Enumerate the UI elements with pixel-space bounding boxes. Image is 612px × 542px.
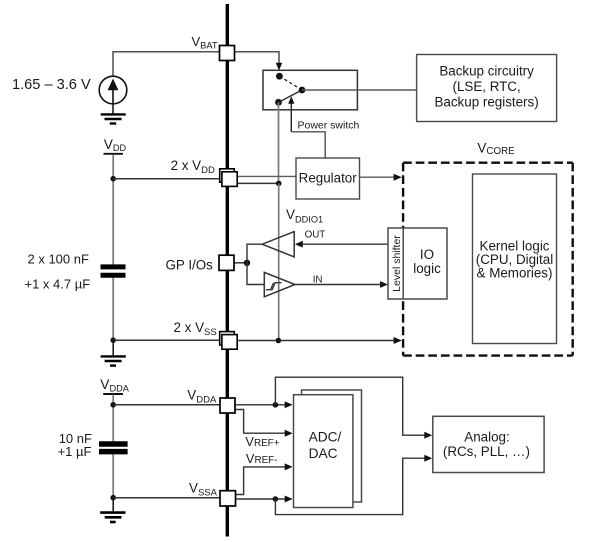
wire dashed switch throw (VBAT side) (279, 76, 302, 90)
svg-text:IO: IO (420, 247, 434, 262)
wire IN from input buffer to level shifter (295, 284, 381, 286)
svg-text:(LSE, RTC,: (LSE, RTC, (452, 79, 520, 94)
wire VSSA pin to ADC (236, 498, 286, 500)
wire VDDA rail down (below capacitor) (112, 454, 114, 498)
svg-text:+1 x 4.7 µF: +1 x 4.7 µF (25, 277, 91, 292)
kernel logic box (473, 174, 557, 344)
node switch top contact (276, 73, 283, 80)
svg-text:1.65 – 3.6 V: 1.65 – 3.6 V (12, 77, 91, 93)
wire VDD junction to 2xVDD pin (113, 178, 220, 180)
wire GPIO pin to buffers junction (234, 262, 247, 264)
wire regulator top to switch arrow (291, 132, 325, 158)
analog peripherals box U-analog (433, 416, 544, 472)
node VSSA junction dot (110, 495, 116, 501)
wire VREF+ from VDDA pin to ADC (235, 410, 285, 434)
wire chip pin rail (MCU boundary) (226, 4, 229, 537)
pin VSSA square (220, 491, 236, 506)
wire switch bottom contact down to VDD rail (278, 102, 280, 183)
node VSS junction dot (110, 337, 116, 343)
op-amp output buffer (GPIO out driver) (262, 232, 294, 257)
capacitor C2 10nF +1uF (99, 444, 128, 452)
battery source V (1.65-3.6V) (99, 76, 127, 104)
wire VDDA junction to VDDA pin (113, 404, 220, 406)
svg-text:GP I/Os: GP I/Os (166, 257, 214, 272)
node VDDA junction dot (110, 402, 116, 408)
ADC/DAC stacked boxes U-adc (294, 390, 362, 508)
regulator box U-reg (296, 158, 360, 199)
wire VDD rail down (below capacitor) (112, 277, 114, 341)
node VCORE dashed domain box (403, 163, 573, 356)
node GPIO junction dot (244, 260, 250, 266)
pin 2xVDD double square (220, 169, 238, 187)
pin VBAT square (220, 46, 235, 61)
svg-text:Level shifter: Level shifter (391, 235, 403, 292)
pin GPIO square (219, 255, 234, 270)
level shifter / IO logic box (388, 228, 447, 299)
node VSS/VDDIO junction dot (276, 338, 282, 344)
pin VDDA square (220, 398, 235, 413)
svg-text:OUT: OUT (305, 229, 326, 240)
svg-text:IN: IN (313, 275, 323, 286)
wire VREF- from VSSA pin to ADC (236, 467, 286, 495)
wire VDDIO1 rail down through IO buffers (278, 183, 280, 340)
svg-text:& Memories): & Memories) (477, 266, 553, 281)
wire VSSA junction down and over to analog box (275, 458, 424, 514)
wire junction to output buffer (247, 244, 262, 263)
wire VBAT pin to power switch (235, 52, 280, 63)
svg-text:(RCs, PLL, …): (RCs, PLL, …) (443, 444, 530, 459)
wire arrow into power switch top contact (276, 63, 282, 71)
node switch bottom contact (275, 99, 282, 106)
svg-text:+1 µF: +1 µF (58, 444, 92, 459)
wire switch select arrow from regulator (290, 104, 292, 132)
svg-text:ADC/: ADC/ (309, 430, 342, 445)
wire switch common to backup box (302, 89, 417, 91)
wire VSSA junction to ground (112, 498, 114, 512)
wire VSS junction to 2xVSS pin (113, 339, 220, 341)
op-amp input buffer (Schmitt trigger) (264, 272, 295, 296)
svg-text:Backup circuitry: Backup circuitry (439, 64, 534, 79)
svg-text:Power switch: Power switch (298, 119, 360, 131)
wire VSS junction to ground (112, 340, 114, 356)
node switch common contact (299, 87, 306, 94)
wire 2xVDD pin to regulator (237, 175, 296, 177)
wire OUT from level shifter to output buffer (300, 243, 388, 245)
svg-text:DAC: DAC (309, 446, 338, 461)
svg-text:Backup registers): Backup registers) (434, 95, 538, 110)
power switch box (263, 70, 357, 110)
wire 2xVSS pin to VCORE domain (237, 340, 394, 342)
node VDD/VDDIO junction dot (276, 181, 282, 187)
backup circuitry box U-backup (417, 55, 557, 122)
wire battery to ground (112, 104, 114, 114)
ground under VSS rail (101, 356, 126, 365)
wire VBAT pin to battery (113, 52, 220, 77)
wire VSSA junction to VSSA pin (113, 497, 220, 499)
wire VDDA rail down (above capacitor) (112, 395, 114, 443)
svg-text:logic: logic (413, 261, 441, 276)
wire solid switch throw (VDD side) (279, 90, 303, 102)
svg-text:Analog:: Analog: (464, 429, 509, 444)
node VDDA/analog junction dot (273, 402, 279, 408)
ground under battery (101, 114, 126, 123)
pin 2xVSS double square (220, 332, 238, 350)
ground under VSSA rail (100, 513, 125, 522)
svg-text:Regulator: Regulator (299, 170, 358, 185)
capacitor C1 2x100nF +1x4.7uF (101, 267, 126, 275)
wire VDDA junction up and over to analog box (275, 377, 424, 435)
wire 2xVDD pin to VDDIO rail (237, 182, 279, 184)
node VSSA/analog junction dot (273, 496, 279, 502)
wire regulator output to VCORE (360, 176, 395, 178)
svg-text:2 x 100 nF: 2 x 100 nF (28, 252, 89, 267)
wire VDD rail down (above capacitor) (112, 155, 114, 267)
node VDD junction dot (110, 176, 116, 182)
Schmitt hysteresis symbol (266, 283, 282, 290)
wire VDDA pin to ADC (235, 404, 285, 406)
wire junction to input buffer (247, 263, 264, 285)
